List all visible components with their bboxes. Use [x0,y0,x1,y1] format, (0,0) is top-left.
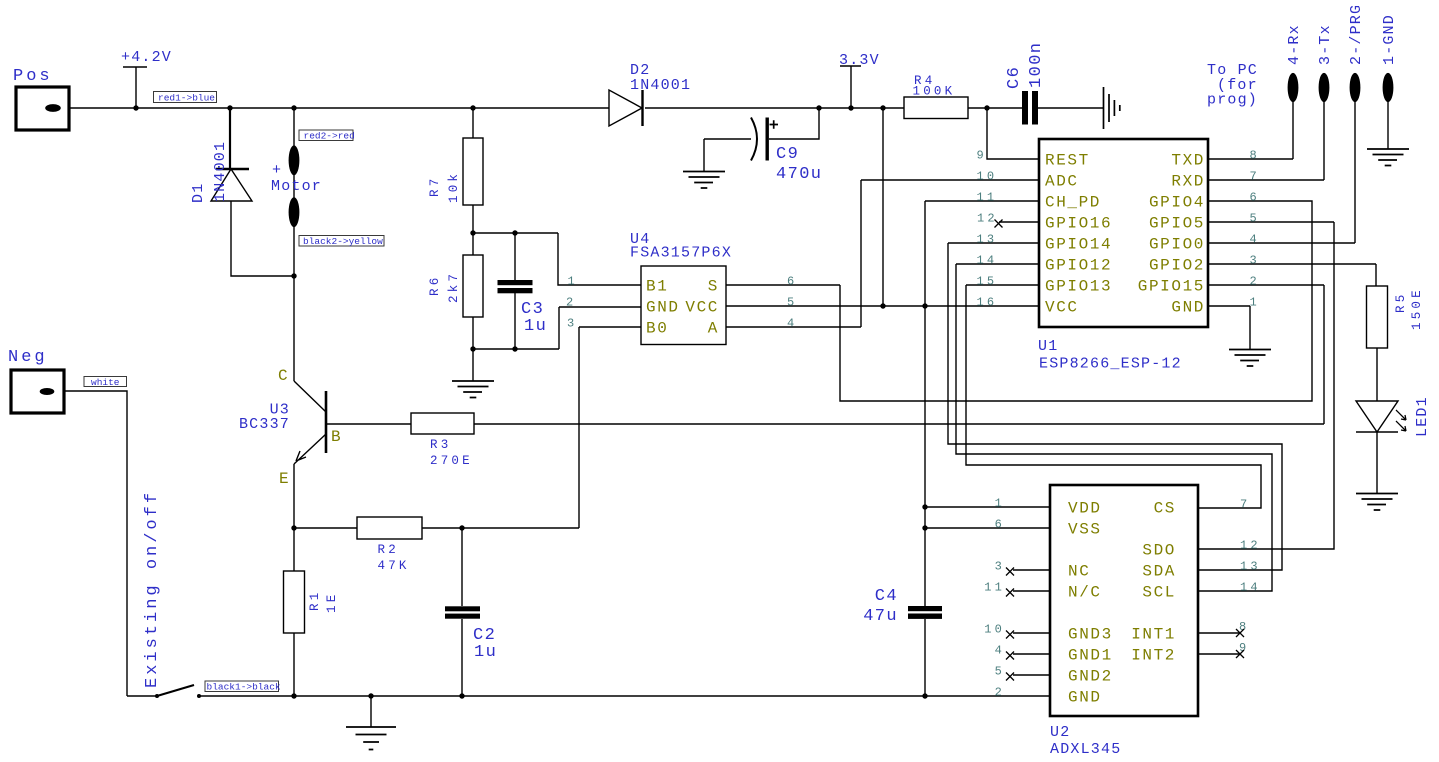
svg-text:GND: GND [1171,299,1205,317]
svg-text:1-GND: 1-GND [1381,14,1398,65]
svg-text:SDO: SDO [1142,542,1176,560]
svg-text:GPIO12: GPIO12 [1045,257,1112,275]
label D2 1N4001 [630,62,691,94]
svg-text:6: 6 [787,275,797,289]
wire GPIO2 to R5 [1208,264,1376,286]
junction node (515,233) [512,230,517,235]
pin GPIO15 2 [1138,275,1260,296]
transistor emitter diagonal with arrow [294,434,326,464]
junction node (925,528) [922,525,927,530]
wire GPIO14 to SDA [948,243,1282,570]
label C3 1u [521,300,547,336]
label R4 100K [913,74,956,99]
pin VDD 1 [995,497,1102,518]
resistor R1 [284,571,305,633]
ground (LED1) [1356,494,1398,511]
wire VCC row U4 to U1 [726,305,1039,307]
svg-text:10: 10 [977,170,998,184]
svg-text:1: 1 [995,497,1005,511]
svg-text:B: B [331,428,342,446]
net label black1->black [205,681,281,693]
svg-text:ESP8266_ESP-12: ESP8266_ESP-12 [1039,356,1182,373]
chip U2 body [1050,485,1198,716]
wire U2 INT stubs [1198,633,1240,654]
junction node (883,306) [880,303,885,308]
svg-text:R2: R2 [378,543,399,557]
svg-text:BC337: BC337 [239,416,290,433]
pin GPIO16 12 not connected [977,212,1112,233]
capacitor C6 [1022,91,1038,125]
pin CH_PD 11 [977,191,1102,212]
chip U1 body [1039,139,1208,327]
svg-text:Motor: Motor [271,178,322,195]
pin GND 1 [1171,296,1260,317]
junction node (462,528) [459,525,464,530]
svg-text:4: 4 [1250,233,1260,247]
label C6 100n [1005,42,1046,89]
svg-text:1E: 1E [325,592,339,613]
connector Neg [8,348,64,413]
svg-text:C9: C9 [776,145,799,164]
pin CS 7 [1154,498,1251,518]
svg-text:10: 10 [984,623,1005,637]
capacitor C2 [445,606,480,618]
wire collector [293,276,295,381]
svg-text:R6: R6 [428,275,442,296]
pin NC 3 not connected [995,560,1091,581]
junction node (473,349) [470,346,475,351]
svg-text:14: 14 [977,254,998,268]
label U3 BC337 [239,402,290,434]
wire bottom ground stem [370,696,372,727]
svg-text:R7: R7 [428,176,442,197]
pin RXD 7 [1171,170,1260,191]
wire GPIO13 to CS [966,285,1261,508]
svg-text:FSA3157P6X: FSA3157P6X [630,245,732,262]
transistor U3 base bar [325,391,328,453]
wire RXD to 3-Tx [1208,102,1324,180]
svg-text:GPIO14: GPIO14 [1045,236,1112,254]
LED LED1 [1356,401,1406,432]
pin SDA 13 [1142,560,1260,581]
net label white [84,377,127,389]
svg-text:TXD: TXD [1171,152,1205,170]
label To PC (for prog) [1207,62,1258,109]
junction node (294,276) [291,273,296,278]
net label red2->red [299,130,355,142]
pin GPIO12 14 [977,254,1113,275]
pin SCL 14 [1142,581,1260,602]
svg-text:470u: 470u [776,165,822,184]
svg-text:Neg: Neg [8,348,48,367]
svg-text:+4.2V: +4.2V [121,49,172,66]
junction node (294,696) [291,693,296,698]
junction node (925,696) [922,693,927,698]
wire bottom ground rail [127,695,1050,697]
capacitor C3 [498,280,533,293]
svg-text:U2: U2 [1050,724,1070,741]
svg-text:C: C [278,367,289,385]
svg-text:CH_PD: CH_PD [1045,194,1101,212]
svg-text:Pos: Pos [13,67,53,86]
svg-text:GPIO0: GPIO0 [1149,236,1205,254]
label R7 10k [428,171,461,203]
svg-text:2-/PRG: 2-/PRG [1348,4,1365,65]
pin GND3 10 not connected [984,623,1113,644]
junction node (294,528) [291,525,296,530]
wire D1 anode to motor bottom [231,201,294,276]
svg-text:4: 4 [787,317,797,331]
svg-text:3: 3 [995,560,1005,574]
pin GPIO5 5 [1149,212,1260,233]
pin REST 9 [977,149,1090,170]
svg-text:9: 9 [977,149,987,163]
net label black2->yellow [299,236,384,248]
svg-text:2: 2 [566,296,576,310]
svg-text:R1: R1 [308,590,322,611]
svg-text:C4: C4 [875,587,898,606]
wire U4 S to GPIO4 [726,201,1312,401]
capacitor C9 [751,118,778,161]
wire C3 stubs [514,233,516,349]
svg-text:E: E [279,470,290,488]
resistor R2 [357,517,422,539]
wire divider top row to U4 B1 [473,233,641,285]
svg-text:prog): prog) [1207,92,1258,109]
svg-text:NC: NC [1068,563,1090,581]
svg-text:12: 12 [977,212,998,226]
capacitor C4 [908,606,942,619]
svg-text:1N4001: 1N4001 [630,77,691,94]
svg-text:3: 3 [567,317,577,331]
svg-text:ADC: ADC [1045,173,1079,191]
wire R6 ground stem [472,349,474,381]
junction node (851,108) [848,105,853,110]
pin GPIO4 6 [1149,191,1260,212]
junction node (371,696) [368,693,373,698]
label Motor [271,162,322,195]
motor M1 pads [289,145,300,227]
connector Pos [13,67,69,130]
svg-text:R3: R3 [430,438,451,452]
junction node (230,108) [227,105,232,110]
pin GPIO0 4 [1149,233,1260,254]
wire R7 leads [472,108,474,233]
pin GND1 4 not connected [995,644,1113,665]
svg-text:5: 5 [787,296,797,310]
label D1 1N4001 [190,141,229,203]
svg-text:13: 13 [1240,560,1261,574]
svg-text:270E: 270E [430,454,473,468]
svg-text:A: A [708,320,719,338]
svg-text:Existing on/off: Existing on/off [143,490,162,688]
pin SDO 12 [1142,539,1260,560]
svg-text:+: + [272,162,282,179]
svg-text:6: 6 [1250,191,1260,205]
svg-text:GPIO13: GPIO13 [1045,278,1112,296]
svg-text:B0: B0 [646,320,668,338]
label R6 2k7 [428,271,461,303]
pin GND2 5 not connected [995,665,1113,686]
svg-text:U1: U1 [1038,338,1058,355]
svg-text:4-Rx: 4-Rx [1286,24,1303,65]
label R3 270E [430,438,473,468]
svg-text:11: 11 [984,581,1005,595]
svg-text:red2->red: red2->red [304,131,355,142]
svg-text:1u: 1u [524,317,547,336]
wire 1-GND pad ground [1387,102,1389,149]
svg-text:GND3: GND3 [1068,626,1113,644]
wire Neg to switch [64,391,127,696]
chip U4 body [641,266,726,345]
connector pad 3-Tx [1317,24,1334,102]
transistor collector diagonal [294,381,326,412]
svg-text:D1: D1 [190,183,207,203]
svg-text:1N4001: 1N4001 [212,141,229,202]
junction node (819,108) [816,105,821,110]
junction node (515,349) [512,346,517,351]
svg-text:100K: 100K [913,85,956,99]
wire motor branch [293,108,295,276]
junction node (925,507) [922,504,927,509]
svg-text:150E: 150E [1410,287,1424,330]
svg-text:SCL: SCL [1142,584,1176,602]
svg-text:12: 12 [1240,539,1261,553]
power 3.3V [839,52,880,108]
ground (1-GND pad) [1367,149,1409,166]
svg-text:1: 1 [568,275,578,289]
wire D1 cathode lead [229,108,231,169]
svg-text:3: 3 [1250,254,1260,268]
pin N/C 11 not connected [984,581,1101,602]
svg-text:VDD: VDD [1068,500,1102,518]
svg-text:R5: R5 [1394,292,1408,313]
svg-text:GPIO16: GPIO16 [1045,215,1112,233]
label C9 470u [776,145,822,184]
wire GPIO5 to SDO [1198,222,1334,549]
junction node (925,306) [922,303,927,308]
svg-text:VCC: VCC [1045,299,1079,317]
resistor R6 [463,255,483,317]
svg-text:GPIO4: GPIO4 [1149,194,1205,212]
svg-text:LED1: LED1 [1414,396,1431,437]
ground (C9) [683,172,725,189]
svg-text:GND1: GND1 [1068,647,1113,665]
svg-text:7: 7 [1250,170,1260,184]
wire emitter vertical [293,464,295,528]
svg-text:10k: 10k [447,171,461,203]
svg-text:100n: 100n [1027,42,1046,88]
label R5 150E [1394,287,1424,330]
net label red1->blue [154,92,217,104]
label C4 47u [863,587,898,626]
label R2 47K [378,543,410,573]
pin TXD 8 [1171,149,1260,170]
pin A 4 [708,317,798,338]
wire GPIO16 stub [999,221,1039,223]
svg-text:1: 1 [1250,296,1260,310]
wire divider bottom row to U4 GND [473,307,641,349]
svg-text:GPIO15: GPIO15 [1138,278,1205,296]
svg-text:CS: CS [1154,500,1176,518]
svg-text:3.3V: 3.3V [839,52,880,69]
svg-text:N/C: N/C [1068,584,1102,602]
junction node (473,108) [470,105,475,110]
label C2 1u [473,626,497,662]
svg-text:REST: REST [1045,152,1090,170]
pin VCC 5 [685,296,797,317]
resistor R4 [904,97,968,119]
wire base to R3 [326,423,411,425]
svg-text:47u: 47u [863,607,898,626]
wire U4 B0 to R2 row [422,327,641,528]
svg-text:7: 7 [1240,498,1250,512]
pin ADC 10 [977,170,1079,191]
svg-text:white: white [91,377,120,388]
junction node (462,696) [459,693,464,698]
svg-text:GND: GND [1068,689,1102,707]
svg-text:VCC: VCC [685,299,719,317]
diode D2 [609,90,643,126]
junction node (136,108) [133,105,138,110]
ground (R6 C3) [452,381,494,398]
resistor R7 [463,138,483,205]
junction node (987,108) [984,105,989,110]
svg-text:1u: 1u [474,643,497,662]
svg-text:S: S [708,278,719,296]
svg-text:INT1: INT1 [1131,626,1176,644]
pin GPIO14 13 [977,233,1113,254]
wire U2 VDD VSS rows [925,507,1050,528]
svg-text:SDA: SDA [1142,563,1176,581]
svg-text:5: 5 [1250,212,1260,226]
svg-text:2k7: 2k7 [447,271,461,303]
svg-text:red1->blue: red1->blue [158,93,215,104]
wire 3.3V rail drop to VCC row [882,108,884,306]
switch SW1 lever [155,685,201,698]
wire R6 leads [472,233,474,349]
wire GPIO15 row [1208,284,1324,286]
wire TXD to 4-Rx [1208,102,1293,159]
svg-text:INT2: INT2 [1131,647,1176,665]
svg-text:15: 15 [977,275,998,289]
pin INT1 8 not connected [1131,620,1249,644]
junction node (294,108) [291,105,296,110]
svg-text:2: 2 [995,686,1005,700]
wire REST pin 9 [987,108,1039,159]
wire R1 leads [293,528,295,696]
svg-text:3-Tx: 3-Tx [1317,24,1334,65]
svg-text:GPIO2: GPIO2 [1149,257,1205,275]
ground rotated (C6) [1104,87,1120,129]
svg-text:2: 2 [1250,275,1260,289]
pin B0 3 [567,317,668,338]
wire CH_PD C4 column [925,201,1039,696]
power +4.2V [121,49,172,108]
connector pad 2-/PRG [1348,4,1365,102]
resistor R3 [411,413,474,434]
junction node (473,233) [470,230,475,235]
svg-text:black1->black: black1->black [207,682,281,693]
svg-text:ADXL345: ADXL345 [1050,741,1121,758]
svg-text:GPIO5: GPIO5 [1149,215,1205,233]
pin GND 2 [995,686,1102,707]
wire C9 connections [704,108,819,171]
wire GPIO0 to 2-/PRG [1208,102,1355,243]
wire R5 to LED to ground [1376,348,1378,493]
wire R2 left lead [294,527,357,529]
pin GND 2 [566,296,680,317]
svg-text:GND: GND [646,299,680,317]
wire GPIO12 to SCL [956,264,1272,591]
wire U1 GND pin 1 [1208,306,1250,349]
pin VCC 16 [977,296,1079,317]
wire U2 NC stubs [1013,570,1050,675]
diode D1 [211,169,252,201]
pin GPIO2 3 [1149,254,1260,275]
wire R3 to GPIO15 net [474,285,1324,424]
pin S 6 [708,275,798,296]
connector pad 1-GND [1381,14,1398,102]
svg-text:RXD: RXD [1171,173,1205,191]
svg-text:14: 14 [1240,581,1261,595]
svg-text:5: 5 [995,665,1005,679]
svg-text:C6: C6 [1005,66,1024,89]
ground (U1 GND) [1229,350,1271,367]
junction node (883,108) [880,105,885,110]
svg-text:8: 8 [1250,149,1260,163]
svg-text:4: 4 [995,644,1005,658]
connector pad 4-Rx [1286,24,1303,102]
pin VSS 6 [995,518,1102,539]
label R1 1E [308,590,339,613]
pin B1 1 [568,275,669,296]
svg-text:B1: B1 [646,278,668,296]
pin GPIO13 15 [977,275,1113,296]
wire C2 column [461,528,463,696]
svg-text:black2->yellow: black2->yellow [303,236,383,247]
svg-text:13: 13 [977,233,998,247]
wire ADC to U4 A [726,180,1039,327]
svg-text:47K: 47K [378,559,410,573]
svg-text:6: 6 [995,518,1005,532]
pin INT2 9 not connected [1131,641,1249,665]
ground (bottom rail) [346,727,396,750]
svg-text:11: 11 [977,191,998,205]
svg-text:GND2: GND2 [1068,668,1113,686]
resistor R5 [1367,286,1388,348]
svg-text:VSS: VSS [1068,521,1102,539]
svg-text:16: 16 [977,296,998,310]
wire top +4.2V rail [69,107,1103,109]
